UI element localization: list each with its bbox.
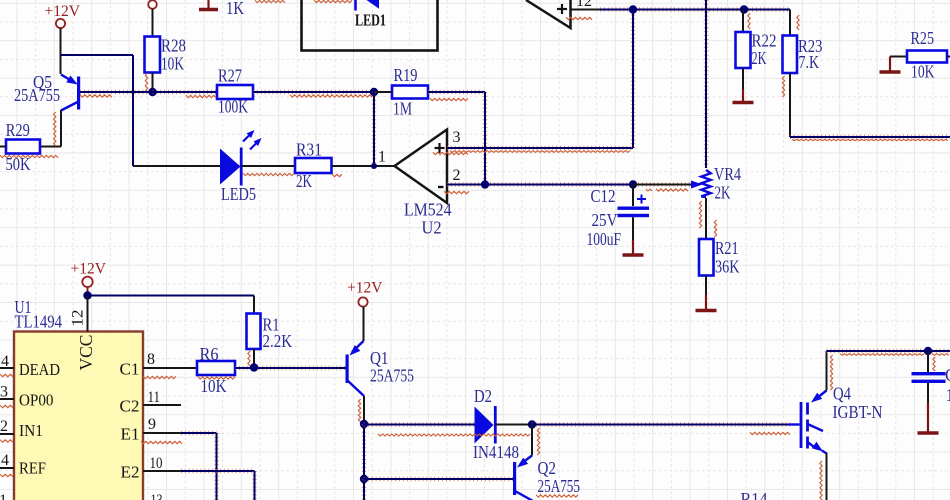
zigzag near C12 (646, 189, 652, 191)
wire (633, 184, 691, 186)
svg-text:4: 4 (1, 353, 9, 370)
IC U1 TL1494 (14, 297, 143, 500)
capacitor C12 (587, 185, 650, 250)
svg-text:VCC: VCC (76, 335, 96, 371)
ground (right cap) (918, 402, 939, 433)
resistor R23 (783, 10, 823, 138)
svg-text:R29: R29 (6, 120, 30, 140)
svg-text:100K: 100K (218, 97, 248, 117)
wire (600, 7, 790, 11)
svg-text:R21: R21 (715, 238, 739, 258)
wire (80, 90, 153, 94)
wire (826, 351, 828, 391)
resistor R29 (0, 120, 40, 174)
wire (241, 165, 295, 167)
svg-text:Q2: Q2 (538, 458, 557, 478)
junction (370, 88, 378, 96)
svg-text:VR4: VR4 (714, 164, 741, 184)
wire (87, 296, 89, 332)
junction (360, 475, 368, 483)
resistor R1 (247, 314, 293, 369)
resistor R28 (145, 0, 187, 92)
svg-text:100uF: 100uF (587, 229, 622, 249)
wire (143, 404, 181, 406)
junction (629, 180, 637, 188)
svg-text:25V: 25V (592, 210, 618, 230)
wire (143, 470, 181, 472)
wire (60, 110, 62, 147)
wire (214, 433, 218, 500)
svg-text:2: 2 (0, 418, 8, 435)
wire (143, 367, 197, 369)
svg-text:10K: 10K (911, 62, 935, 82)
svg-text:7.K: 7.K (799, 52, 820, 72)
wire (363, 307, 365, 342)
svg-text:25A755: 25A755 (14, 85, 60, 105)
svg-text:U2: U2 (422, 218, 442, 238)
wire (253, 90, 374, 94)
resistor R31 (295, 140, 332, 192)
svg-text:DEAD: DEAD (19, 360, 60, 379)
op-amp U2 (395, 130, 452, 238)
svg-text:R19: R19 (394, 65, 418, 85)
wire (790, 135, 950, 139)
potentiometer VR4 (691, 164, 741, 203)
wire (132, 55, 134, 166)
svg-text:Q4: Q4 (833, 384, 851, 404)
junction (924, 347, 932, 355)
svg-text:8: 8 (147, 351, 155, 368)
svg-text:1: 1 (946, 385, 950, 405)
svg-text:2.2K: 2.2K (263, 331, 293, 351)
wire (631, 10, 635, 149)
junction (148, 88, 156, 96)
resistor R25 (890, 28, 950, 82)
wire (363, 396, 365, 424)
junction (481, 180, 489, 188)
svg-text:11: 11 (148, 389, 161, 406)
svg-text:R25: R25 (911, 28, 935, 48)
svg-text:D2: D2 (474, 386, 492, 406)
svg-text:LM524: LM524 (404, 200, 452, 220)
svg-text:E2: E2 (121, 463, 140, 482)
wire (143, 432, 181, 434)
ground (R21) (696, 295, 717, 311)
power +12V (Q1) (347, 280, 383, 307)
power +12V (U1 VCC) (71, 261, 107, 293)
wire (153, 90, 218, 94)
wire (61, 54, 134, 56)
junction (250, 363, 258, 371)
ground (C12) (623, 240, 644, 255)
wire (705, 276, 707, 296)
svg-text:10K: 10K (161, 54, 184, 74)
svg-text:TL1494: TL1494 (15, 312, 63, 332)
wire (531, 425, 533, 456)
svg-text:R31: R31 (296, 140, 322, 160)
transistor Q5 (14, 72, 80, 111)
svg-text:36K: 36K (715, 257, 740, 277)
junction (371, 163, 377, 169)
wire (571, 9, 601, 11)
wire (181, 431, 217, 435)
svg-text:2K: 2K (715, 183, 731, 203)
svg-text:13: 13 (151, 492, 163, 500)
junction (629, 5, 637, 13)
transistor Q2 (513, 456, 580, 500)
svg-text:4: 4 (1, 452, 9, 469)
svg-text:C12: C12 (591, 186, 616, 206)
capacitor (right edge) (912, 351, 950, 405)
diode D2 (473, 386, 519, 462)
wire (252, 471, 256, 500)
svg-text:1: 1 (378, 149, 386, 166)
svg-text:3: 3 (453, 129, 461, 146)
junction (83, 291, 91, 299)
junction (360, 420, 368, 428)
wire (483, 92, 487, 185)
zigzag marks (misc) (0, 73, 949, 435)
svg-text:2K: 2K (752, 48, 767, 68)
zigzag under E1 pin (141, 441, 182, 443)
wire (447, 182, 691, 186)
wire (181, 469, 255, 473)
wire (362, 479, 366, 500)
svg-text:1M: 1M (393, 99, 412, 119)
transistor Q1 (346, 341, 415, 396)
component box LED1 (cut off at top) (302, 0, 438, 51)
zigzag under D2 (378, 428, 540, 455)
zigzag near R23 (748, 13, 799, 97)
svg-text:+12V: +12V (45, 3, 81, 20)
svg-text:2: 2 (453, 167, 461, 184)
svg-text:E1: E1 (121, 425, 140, 444)
resistor R22 (736, 10, 777, 90)
wire (372, 92, 376, 166)
svg-text:REF: REF (19, 459, 46, 478)
zigzag under left pins (0, 374, 13, 476)
U1 pin DEAD (4) (0, 353, 14, 370)
svg-text:1: 1 (0, 492, 7, 500)
svg-text:LED1: LED1 (355, 11, 386, 30)
svg-text:R6: R6 (200, 344, 219, 364)
wire (374, 91, 392, 93)
wire (364, 422, 475, 426)
svg-text:R27: R27 (218, 66, 242, 86)
svg-text:LED5: LED5 (221, 184, 256, 204)
wire (428, 90, 485, 94)
zigzag right cap (933, 357, 935, 371)
svg-text:10: 10 (150, 455, 163, 472)
svg-text:C1: C1 (945, 365, 950, 385)
wire (362, 424, 366, 479)
wire (332, 165, 395, 167)
svg-text:3: 3 (0, 384, 8, 401)
op-amp (partial, pin 12) (526, 0, 571, 28)
zigzag under Q2 label (536, 495, 578, 497)
junction (740, 5, 748, 13)
power +12V (Q5 collector) (45, 3, 81, 28)
wire (253, 296, 255, 314)
resistor R6 (197, 344, 235, 396)
wire (133, 165, 220, 167)
svg-text:2K: 2K (296, 171, 312, 191)
wire (364, 477, 513, 481)
U1 pin IN1 (2) (0, 418, 14, 435)
zigzag near R1 (248, 351, 250, 366)
zigzag marks top edge (255, 0, 352, 2)
wire (704, 0, 708, 168)
junction (528, 420, 536, 428)
svg-text:1K: 1K (226, 0, 244, 18)
ground (1K resistor, cut off at top) (199, 0, 218, 10)
wire (235, 366, 346, 370)
wire (705, 198, 707, 239)
svg-text:IN4148: IN4148 (473, 442, 519, 462)
wire (40, 146, 61, 148)
svg-text:+12V: +12V (71, 261, 107, 278)
wire (88, 295, 255, 297)
svg-text:+12V: +12V (347, 280, 383, 297)
ground (R22) (733, 89, 754, 103)
zigzag under LED5/R31 wire (243, 173, 342, 176)
wire (532, 422, 790, 426)
LED D LED5 (220, 130, 262, 204)
wire (827, 349, 950, 353)
svg-text:R14: R14 (741, 489, 768, 500)
resistor R27 (217, 66, 253, 117)
transistor Q4 IGBT-N (789, 384, 883, 454)
U1 pin REF (4) (0, 452, 14, 469)
svg-text:25A755: 25A755 (370, 366, 414, 386)
svg-text:R28: R28 (161, 36, 186, 56)
zigzag under op-amp (566, 17, 592, 19)
wire (60, 28, 62, 75)
ground (R25) (880, 57, 901, 73)
resistor R21 (699, 238, 740, 277)
svg-text:IN1: IN1 (19, 421, 43, 440)
wire (495, 424, 532, 426)
svg-text:OP00: OP00 (19, 391, 54, 410)
svg-text:C2: C2 (120, 397, 140, 416)
wire (447, 146, 633, 150)
svg-text:C1: C1 (120, 360, 140, 379)
U1 pin OP00 (3) (0, 384, 14, 401)
wire (826, 453, 828, 500)
svg-text:IGBT-N: IGBT-N (833, 402, 883, 422)
svg-text:12: 12 (70, 310, 87, 327)
zigzag near VR4 leg (699, 201, 716, 237)
zigzag Q4 (820, 355, 833, 500)
svg-text:25A755: 25A755 (538, 476, 581, 496)
svg-text:9: 9 (148, 416, 156, 433)
resistor R19 (392, 65, 428, 119)
zigzag Q1 collector (358, 399, 360, 422)
zigzag under C1 pin/R6 (143, 376, 235, 379)
